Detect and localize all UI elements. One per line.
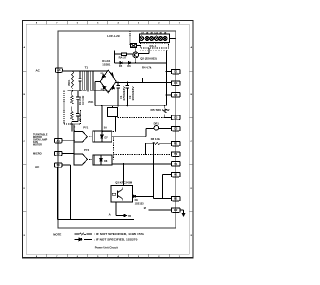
wire Q3 base top bbox=[122, 164, 124, 186]
wire bbox=[114, 51, 116, 63]
svg-text:C: C bbox=[191, 141, 193, 143]
wire D7 top feed bbox=[101, 106, 103, 132]
svg-text:D3: D3 bbox=[101, 89, 103, 91]
svg-text:C4: C4 bbox=[174, 81, 178, 85]
svg-text:R1 470k: R1 470k bbox=[79, 96, 82, 105]
relay driver DR1 bbox=[154, 122, 160, 131]
relay PY1 bbox=[74, 126, 89, 142]
wire Q2 leads bbox=[115, 48, 150, 63]
junction bbox=[94, 90, 95, 91]
svg-text:S2: S2 bbox=[57, 152, 61, 156]
diode bridge D1-D4 bbox=[100, 70, 116, 93]
frame zone letters left bbox=[24, 46, 26, 237]
svg-text:: IF NOT SPECIFIED, 1SS270: : IF NOT SPECIFIED, 1SS270 bbox=[94, 238, 138, 242]
svg-text:12A: 12A bbox=[154, 32, 158, 35]
varistor VR01 bbox=[68, 71, 74, 89]
wire bridge positive rail bbox=[116, 80, 171, 83]
svg-text:C0: C0 bbox=[174, 93, 178, 97]
relay PY2 contact box with diode D8 bbox=[93, 155, 112, 165]
svg-text:B: B bbox=[191, 94, 193, 96]
wire dashed coil to contact bbox=[87, 136, 92, 138]
right edge connector P1 bbox=[171, 69, 180, 74]
node +B tick bbox=[142, 78, 143, 82]
capacitor C2 bbox=[126, 82, 136, 105]
capacitor C1 bbox=[116, 82, 126, 105]
svg-text:RA-1: RA-1 bbox=[150, 44, 157, 48]
junction bbox=[127, 82, 128, 83]
frame tick marks right bbox=[189, 71, 193, 211]
node label block bbox=[33, 133, 48, 146]
svg-text:AC: AC bbox=[36, 68, 41, 72]
border frame inner bbox=[26, 24, 189, 254]
svg-text:D: D bbox=[24, 188, 26, 190]
right edge connector P9 bbox=[171, 172, 180, 177]
svg-text:C: C bbox=[24, 141, 26, 143]
NOTE legend bbox=[53, 232, 144, 241]
wire link B1 to relay bbox=[114, 117, 116, 132]
wire Q3 emitter down bbox=[115, 202, 117, 216]
svg-text:VR01: VR01 bbox=[68, 79, 71, 86]
wire right vertical bbox=[165, 50, 167, 105]
junction bbox=[73, 140, 74, 141]
svg-text:DR1: DR1 bbox=[154, 122, 160, 126]
frame tick marks left bbox=[22, 71, 26, 211]
junction bbox=[153, 143, 154, 144]
component box B1 bbox=[107, 106, 117, 117]
svg-text:C2: C2 bbox=[174, 127, 178, 131]
resistor R2 cluster bbox=[71, 111, 83, 125]
resistor R1 cluster bbox=[71, 91, 83, 111]
connector CN1 pin 4 bbox=[154, 36, 158, 40]
svg-text:D1: D1 bbox=[110, 73, 112, 75]
wire dashed to connector P4 bbox=[118, 116, 165, 118]
svg-text:MOTOR: MOTOR bbox=[33, 143, 42, 146]
svg-text:B: B bbox=[24, 94, 26, 96]
wire dashed coil to contact bbox=[87, 158, 93, 160]
wire bbox=[153, 143, 171, 198]
svg-text:B1: B1 bbox=[174, 197, 178, 201]
svg-text:C1: C1 bbox=[174, 70, 178, 74]
svg-text:PY2: PY2 bbox=[84, 148, 90, 152]
junction bbox=[166, 71, 167, 72]
right edge connector P11 bbox=[171, 208, 180, 213]
wire bottom rail bbox=[58, 218, 134, 220]
svg-text:R1: R1 bbox=[174, 142, 178, 146]
svg-text:5A: 5A bbox=[104, 127, 107, 130]
resistor R8 bbox=[151, 137, 161, 145]
left connector CN4 bbox=[55, 163, 63, 167]
svg-text:S0: S0 bbox=[57, 163, 61, 167]
svg-text:D1-D4: D1-D4 bbox=[102, 59, 110, 63]
svg-text:A: A bbox=[191, 46, 193, 49]
svg-text:A1: A1 bbox=[57, 139, 61, 143]
wire dashed mech link bbox=[112, 137, 114, 160]
junction bbox=[71, 124, 72, 125]
wire bbox=[130, 44, 140, 46]
wire D5 D6 rail bbox=[115, 62, 167, 64]
frame tick marks bottom bbox=[47, 254, 169, 258]
svg-text:D6: D6 bbox=[127, 64, 131, 68]
connector CN1 pin 2 bbox=[145, 37, 149, 41]
svg-text:Y1: Y1 bbox=[174, 162, 178, 166]
svg-text:A6: A6 bbox=[57, 68, 61, 72]
junction bbox=[162, 198, 163, 199]
svg-text:T1: T1 bbox=[85, 66, 89, 70]
wire bbox=[149, 209, 172, 211]
frame zone letters right bbox=[191, 46, 193, 237]
node YB arrow bbox=[116, 214, 131, 218]
junction bbox=[127, 105, 128, 106]
svg-text:PY1: PY1 bbox=[83, 126, 89, 130]
wire bbox=[165, 116, 172, 118]
frame zone numbers top bbox=[36, 22, 181, 25]
wire bridge negative bbox=[95, 81, 100, 105]
wire ground rail bbox=[95, 105, 165, 107]
junction bbox=[117, 82, 118, 83]
svg-text:YB: YB bbox=[128, 215, 132, 218]
svg-text:1000/16V: 1000/16V bbox=[131, 86, 135, 101]
border frame outer bbox=[22, 21, 193, 258]
right edge connector P8 bbox=[171, 162, 180, 167]
transformer T1 core bbox=[88, 70, 89, 91]
junction bbox=[72, 90, 73, 91]
svg-text:AC: AC bbox=[35, 165, 40, 169]
capacitor C5 cluster bbox=[76, 107, 79, 122]
svg-text:R4 4.7k: R4 4.7k bbox=[142, 66, 152, 70]
transformer T1 primary bbox=[83, 71, 86, 90]
wire AC top rail bbox=[62, 69, 108, 72]
diode D6 bbox=[127, 62, 131, 69]
ground arrow P11 bbox=[180, 210, 185, 216]
svg-text:C3: C3 bbox=[174, 116, 178, 120]
svg-text:D2: D2 bbox=[101, 73, 103, 75]
svg-text:1SS133: 1SS133 bbox=[135, 202, 145, 205]
transistor Q2 bbox=[133, 52, 139, 58]
junction bbox=[101, 105, 102, 106]
resistor array RA-1 bbox=[141, 43, 169, 48]
wire bbox=[71, 124, 73, 131]
wire coil feeds bbox=[62, 124, 74, 153]
capacitor C4 cluster bbox=[76, 91, 85, 107]
main circuit board outline bbox=[58, 31, 176, 228]
junction bbox=[74, 130, 75, 131]
connector CN1 pin 1 bbox=[139, 36, 143, 40]
RA-1 pin row bbox=[141, 49, 169, 51]
svg-text:NOTE: NOTE bbox=[53, 232, 61, 236]
wire to connector P8 bbox=[112, 163, 172, 165]
diode D5 bbox=[119, 62, 123, 69]
left connector CN2 bbox=[55, 139, 63, 143]
wire to connector P3 bbox=[166, 94, 171, 96]
svg-text:D7: D7 bbox=[105, 137, 109, 140]
junction bbox=[72, 70, 73, 71]
svg-text:MICRO: MICRO bbox=[33, 152, 42, 156]
jumper box J1 bbox=[131, 44, 137, 48]
svg-text:: IF NOT SPECIFIED, 1/4W ±5%: : IF NOT SPECIFIED, 1/4W ±5% bbox=[94, 232, 145, 236]
bridge label D1-D4 1SS81 bbox=[102, 59, 111, 67]
svg-text:E2: E2 bbox=[174, 208, 178, 212]
svg-text:Q3 KRC243M: Q3 KRC243M bbox=[115, 180, 133, 184]
wire bbox=[62, 143, 74, 154]
svg-text:D5: D5 bbox=[119, 64, 123, 68]
wire loop P9 P10 bbox=[163, 175, 172, 199]
junction bbox=[166, 94, 167, 95]
relay PY1 contact box with diode D7 bbox=[93, 131, 112, 142]
frame zone numbers bottom bbox=[36, 255, 181, 258]
right edge connector P2 bbox=[171, 81, 180, 86]
relay PY2 bbox=[74, 148, 89, 165]
wire dashed bbox=[102, 131, 116, 133]
junction bbox=[164, 105, 165, 106]
wire lower rail bbox=[67, 90, 82, 92]
svg-text:Q2 (2SA933): Q2 (2SA933) bbox=[140, 56, 157, 60]
junction bbox=[70, 219, 71, 220]
transformer T1 secondary bbox=[90, 71, 93, 90]
resistor RA-27 label bbox=[119, 53, 127, 60]
frame tick marks top bbox=[47, 21, 169, 25]
svg-text:RA-27: RA-27 bbox=[119, 56, 127, 60]
svg-text:T2: T2 bbox=[174, 152, 178, 156]
svg-text:D8: D8 bbox=[104, 160, 108, 163]
svg-text:A: A bbox=[109, 212, 112, 216]
wire bbox=[72, 121, 78, 123]
connector CN1 pin 5 bbox=[159, 37, 163, 41]
junction bbox=[117, 105, 118, 106]
wire Q3 collector right bbox=[133, 195, 154, 197]
wire bbox=[170, 37, 176, 39]
connector CN1 box bbox=[139, 34, 169, 42]
svg-text:R8 3.3k: R8 3.3k bbox=[151, 137, 161, 141]
svg-text:E: E bbox=[191, 235, 193, 237]
svg-text:1SS81: 1SS81 bbox=[102, 62, 111, 66]
transistor Q3 box bbox=[111, 186, 133, 203]
svg-text:V001: V001 bbox=[88, 102, 94, 104]
diode D9 bbox=[133, 195, 144, 205]
connector CN1 pin 6 bbox=[163, 37, 167, 41]
connector AC input bbox=[55, 68, 62, 72]
wire bbox=[112, 129, 172, 137]
wire dashed mid bbox=[113, 153, 171, 155]
svg-text:E: E bbox=[24, 235, 26, 237]
wire bbox=[79, 71, 81, 91]
svg-text:LCF-L29: LCF-L29 bbox=[107, 34, 120, 38]
left connector CN3 bbox=[55, 151, 63, 155]
junction bbox=[135, 62, 136, 63]
junction bbox=[123, 163, 124, 164]
connector CN1 pin 3 bbox=[150, 37, 154, 41]
wire to connector P1 bbox=[166, 71, 171, 73]
wire dashed from LCF block bbox=[129, 31, 131, 45]
right edge connector P7 bbox=[171, 152, 180, 157]
bridge corner labels bbox=[101, 73, 114, 91]
connector CN1 pin labels bbox=[141, 32, 167, 35]
wire dashed left bbox=[64, 91, 81, 124]
svg-text:M: M bbox=[144, 207, 146, 210]
right edge connector P5 bbox=[171, 126, 180, 131]
svg-text:A1: A1 bbox=[174, 173, 178, 177]
right edge connector P10 bbox=[171, 196, 180, 201]
right edge connector P4 bbox=[171, 115, 180, 120]
wire bbox=[135, 48, 137, 52]
wire AC down left bbox=[57, 167, 59, 219]
right edge connector P3 bbox=[171, 93, 180, 98]
svg-text:A: A bbox=[24, 46, 26, 49]
svg-text:4700/16V: 4700/16V bbox=[122, 86, 126, 101]
junction bbox=[79, 70, 80, 71]
resistor R5 bbox=[151, 106, 171, 118]
wire R8 rail bbox=[146, 143, 172, 155]
svg-text:R5 560 1/2W: R5 560 1/2W bbox=[151, 109, 171, 112]
svg-text:D: D bbox=[191, 188, 193, 190]
capacitor C3 plates bbox=[78, 79, 81, 81]
right edge connector P6 bbox=[171, 141, 180, 146]
wire secondary bottom bbox=[94, 91, 108, 93]
svg-text:C4 0.022: C4 0.022 bbox=[82, 95, 85, 105]
svg-text:Power Unit Circuit: Power Unit Circuit bbox=[95, 246, 118, 250]
wire AC down right bbox=[62, 165, 71, 219]
